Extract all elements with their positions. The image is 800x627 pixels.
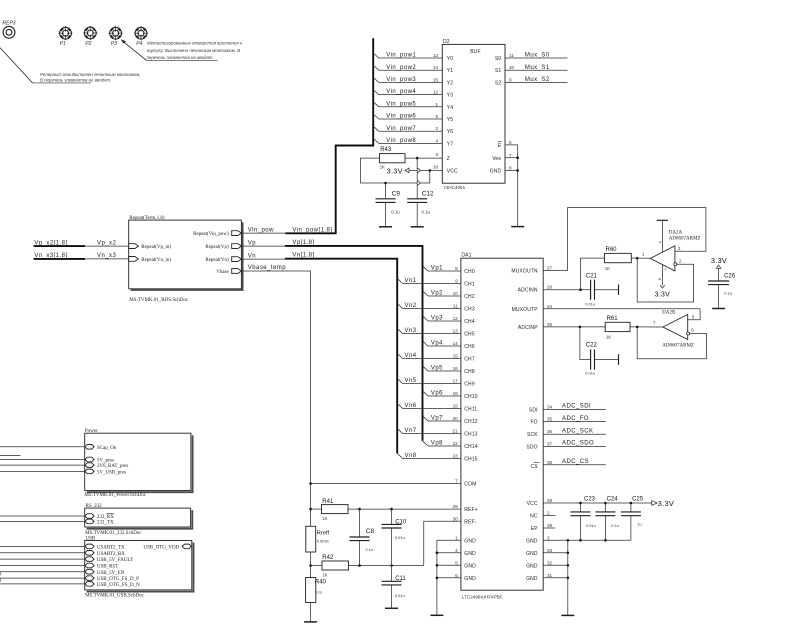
bus entry Vn3 (397, 328, 402, 333)
svg-text:Vp_x2: Vp_x2 (97, 240, 116, 246)
wire pin5 to MUXOUTP (688, 309, 700, 320)
leader line to fiducial (0, 46, 33, 83)
svg-text:CH6: CH6 (464, 344, 475, 350)
svg-text:3.3V: 3.3V (387, 167, 403, 176)
wire Vn8 (403, 458, 461, 460)
svg-text:Vp6: Vp6 (431, 391, 443, 397)
capacitor C23 (571, 503, 591, 540)
wire MUXOUTP (543, 308, 700, 310)
note: plated mounting holes text (147, 41, 243, 61)
wire left GND rail (437, 540, 461, 615)
sheet entry USB_OTG_VDD (182, 544, 191, 549)
bus Vn_x3[1.8] (34, 258, 85, 260)
wire Vin_pow8 (379, 142, 443, 144)
wire USB_RST (0, 565, 85, 567)
svg-text:FO: FO (530, 420, 537, 426)
svg-text:MUXOUTP: MUXOUTP (512, 307, 539, 313)
svg-text:Vp1: Vp1 (431, 266, 443, 272)
ground below C12 (411, 226, 424, 228)
svg-text:30: 30 (453, 516, 459, 521)
wire 5V_USB_pres (0, 470, 85, 472)
svg-text:12: 12 (433, 90, 439, 95)
svg-text:ADC_SDO: ADC_SDO (562, 441, 594, 447)
svg-text:0.01u: 0.01u (395, 535, 405, 540)
svg-text:10: 10 (453, 291, 459, 296)
svg-text:34: 34 (547, 404, 553, 409)
svg-text:7: 7 (653, 320, 656, 325)
svg-text:Vn_x3: Vn_x3 (97, 253, 116, 259)
svg-text:GND: GND (464, 551, 476, 557)
svg-text:GND: GND (526, 576, 538, 582)
svg-text:5.001K: 5.001K (317, 539, 330, 544)
wire 232_RX (0, 515, 85, 517)
svg-text:BUF: BUF (470, 49, 480, 55)
svg-text:Vn1: Vn1 (405, 278, 417, 284)
svg-text:E: E (498, 143, 502, 149)
svg-text:14: 14 (453, 341, 459, 346)
svg-text:Repeat(Vin_pow): Repeat(Vin_pow) (193, 232, 229, 237)
junction C24 top (604, 502, 607, 505)
svg-text:CH13: CH13 (464, 432, 477, 438)
wire Vn6 (403, 408, 461, 410)
wire Vn1 (403, 283, 461, 285)
svg-text:D2: D2 (443, 39, 450, 45)
note: fiducial mark text (33, 72, 141, 83)
sheet entry USB_OTG_FS_D_N (85, 582, 94, 587)
wire USB_OTG_FS_D_P (0, 577, 85, 579)
svg-text:ADC_SCK: ADC_SCK (562, 428, 594, 434)
svg-text:Repeat(Vp): Repeat(Vp) (205, 245, 229, 250)
svg-text:15: 15 (453, 354, 459, 359)
svg-text:DA1: DA1 (461, 253, 471, 259)
svg-text:11: 11 (509, 53, 514, 58)
svg-text:C26: C26 (724, 273, 736, 279)
svg-text:S1: S1 (495, 68, 501, 74)
sheet entry USB_5V_EN (85, 569, 94, 574)
svg-text:27: 27 (547, 266, 553, 271)
junction VCC (429, 169, 432, 172)
svg-text:COM: COM (464, 482, 476, 488)
svg-text:2: 2 (547, 511, 550, 516)
wire ADCINP (543, 326, 605, 328)
bus entry Vin_pow4 (373, 90, 379, 95)
svg-text:3: 3 (547, 535, 550, 540)
ADC DA1 LTC2498 body (461, 258, 543, 590)
svg-text:S0: S0 (495, 56, 501, 62)
stub EP (543, 527, 555, 529)
power port 3.3V right (652, 499, 674, 508)
wire Z filter drop (416, 158, 418, 199)
wire R60 to DA2A input (631, 257, 650, 259)
svg-text:26: 26 (547, 285, 553, 290)
svg-text:Vn[1.8]: Vn[1.8] (292, 253, 314, 259)
junction C10 top (390, 508, 393, 511)
bus entry Vp7 (423, 416, 428, 421)
svg-text:Vp3: Vp3 (431, 316, 443, 322)
junction Vbase_temp/COM (309, 482, 312, 485)
wire hop over Z net at VCC wire (417, 168, 420, 173)
wire Vin_pow1 (379, 57, 443, 59)
sheet entry USB_OTG_FS_D_P (85, 576, 94, 581)
svg-text:Y6: Y6 (447, 129, 453, 135)
svg-text:Vin_pow2: Vin_pow2 (386, 65, 416, 71)
svg-text:R43: R43 (380, 147, 392, 153)
svg-text:B: B (0, 572, 2, 578)
svg-text:AD8607ARMZ: AD8607ARMZ (669, 236, 701, 241)
junction GND32 (567, 564, 570, 567)
wire USB_5V_FAULT (0, 558, 85, 560)
svg-text:CH7: CH7 (464, 357, 475, 363)
svg-text:31: 31 (547, 573, 553, 578)
svg-text:GND: GND (490, 169, 502, 175)
wire GND3 row (543, 539, 631, 541)
svg-text:2: 2 (435, 126, 438, 131)
wire GND pin 4 (437, 552, 461, 554)
svg-text:24: 24 (547, 304, 553, 309)
svg-text:GND: GND (526, 538, 538, 544)
svg-text:ADC_SDI: ADC_SDI (562, 404, 591, 410)
svg-text:В перечень элементов не вводя: В перечень элементов не вводят. (40, 78, 111, 83)
bus entry Vn1 (397, 278, 402, 283)
wire GND33 (543, 552, 568, 554)
svg-text:Vn3: Vn3 (405, 328, 417, 334)
svg-text:Z: Z (447, 156, 450, 162)
junction GND6 (436, 577, 439, 580)
svg-text:C23: C23 (584, 497, 596, 503)
svg-text:1K: 1K (606, 335, 611, 340)
wire E to ground rail (505, 145, 518, 227)
wire Vin_pow2 (379, 69, 443, 71)
svg-text:C11: C11 (395, 576, 406, 582)
sheet entry USB_5V_FAULT (85, 557, 94, 562)
sheet entry USB_RST (85, 563, 94, 568)
junction Vee (516, 156, 519, 159)
svg-text:CH0: CH0 (464, 269, 475, 275)
svg-text:USB_RST: USB_RST (97, 565, 118, 570)
wire R42 right row (349, 565, 424, 567)
power port 3.3V at C26 (711, 256, 727, 268)
svg-text:0.1u: 0.1u (724, 291, 732, 296)
svg-text:18: 18 (453, 391, 459, 396)
svg-text:CH11: CH11 (464, 407, 477, 413)
wire R42 left (311, 565, 322, 567)
svg-text:Vp7: Vp7 (431, 416, 443, 422)
svg-text:22: 22 (453, 441, 459, 446)
wire R43 right to Z pin (405, 157, 442, 159)
wire 3V6_BAT_pres (0, 464, 85, 466)
svg-text:Y3: Y3 (447, 93, 453, 99)
capacitor C24 (595, 503, 615, 540)
svg-text:CH12: CH12 (464, 419, 477, 425)
capacitor C11 (382, 566, 402, 609)
mounting hole P1 (58, 26, 72, 40)
svg-text:ADCINN: ADCINN (518, 288, 538, 294)
svg-text:CH15: CH15 (464, 457, 477, 463)
svg-text:CH8: CH8 (464, 369, 475, 375)
svg-text:Repeat(Term,1,8): Repeat(Term,1,8) (129, 216, 165, 221)
svg-text:37: 37 (547, 442, 553, 447)
wire 3.3V to VCC pin (409, 169, 417, 171)
wire ADC_CS (543, 464, 606, 466)
wire Mux_S1 (505, 69, 568, 71)
svg-text:0.01u: 0.01u (585, 302, 595, 307)
fiducial REP3 (3, 26, 15, 38)
svg-text:Vn7: Vn7 (405, 428, 417, 434)
wire Vn2 (403, 308, 461, 310)
svg-text:Vn5: Vn5 (405, 378, 417, 384)
svg-text:Y0: Y0 (447, 56, 453, 62)
resistor R43 (380, 154, 406, 163)
svg-text:CH1: CH1 (464, 282, 475, 288)
wire Vin_pow5 (379, 106, 443, 108)
svg-text:Vp4: Vp4 (431, 341, 443, 347)
junction R42 left (309, 564, 312, 567)
svg-text:SCK: SCK (527, 432, 538, 438)
capacitor C10 (382, 509, 402, 565)
op-amp DA2B (663, 315, 688, 340)
wire rail to VCC junction (420, 170, 429, 183)
svg-text:19: 19 (453, 404, 459, 409)
svg-text:1K: 1K (605, 266, 610, 271)
wire Vn5 (403, 383, 461, 385)
wire Vn (241, 258, 285, 260)
svg-text:Repeat(Vp_in): Repeat(Vp_in) (141, 245, 171, 250)
svg-text:Rreff: Rreff (317, 531, 330, 537)
svg-text:SDO: SDO (526, 445, 537, 451)
bus entry Vp3 (423, 316, 428, 321)
wire SCap_On (0, 446, 85, 448)
svg-text:S2: S2 (495, 80, 501, 86)
wire Vee stub (505, 157, 518, 159)
svg-text:1K: 1K (322, 516, 327, 521)
wire ADC_SDI (543, 408, 606, 410)
svg-text:5: 5 (692, 314, 695, 319)
svg-text:6: 6 (509, 140, 512, 145)
bus entry Vn4 (397, 353, 402, 358)
wire Vn_x3 (85, 258, 129, 260)
svg-text:корпусу. Выполнено печатным мо: корпусу. Выполнено печатным монтажом. В (147, 48, 240, 53)
svg-text:P4: P4 (136, 41, 142, 47)
power pin 4 rail (657, 220, 668, 252)
capacitor C9 (376, 183, 396, 227)
svg-text:C22: C22 (586, 342, 598, 348)
stub NC (543, 515, 555, 517)
svg-text:P3: P3 (111, 41, 117, 47)
bus entry Vn8 (397, 453, 402, 458)
svg-text:74HC4051: 74HC4051 (443, 185, 465, 190)
ground below right GND rail (561, 614, 574, 616)
svg-text:Y1: Y1 (447, 68, 453, 74)
svg-text:SDI: SDI (529, 407, 538, 413)
svg-text:17: 17 (453, 379, 459, 384)
svg-text:232_RX: 232_RX (97, 515, 114, 520)
svg-text:Mux_S2: Mux_S2 (525, 77, 550, 83)
wire Vp7 (428, 420, 461, 422)
wire Vin_pow4 (379, 94, 443, 96)
bus Vp_x2[1.8] (34, 245, 85, 247)
svg-text:Vin_pow1: Vin_pow1 (386, 53, 416, 59)
svg-text:CH3: CH3 (464, 307, 475, 313)
svg-text:P1: P1 (60, 41, 66, 47)
svg-text:Vp[1.8]: Vp[1.8] (292, 240, 314, 246)
wire stub (0, 455, 21, 457)
svg-text:1: 1 (455, 535, 458, 540)
svg-text:16: 16 (453, 366, 459, 371)
svg-text:CH4: CH4 (464, 319, 475, 325)
svg-text:Vin_pow: Vin_pow (248, 227, 274, 233)
svg-text:ADC_CS: ADC_CS (562, 459, 589, 465)
svg-text:Vn6: Vn6 (405, 403, 417, 409)
svg-text:3: 3 (435, 152, 438, 157)
capacitor C22 (580, 327, 619, 370)
svg-text:28: 28 (547, 498, 553, 503)
bus entry Vp1 (423, 266, 428, 271)
svg-text:Y5: Y5 (447, 117, 453, 123)
svg-text:CH9: CH9 (464, 382, 475, 388)
svg-text:MS.TVMK.01_RDS.SchDoc: MS.TVMK.01_RDS.SchDoc (129, 298, 189, 303)
svg-text:10: 10 (509, 65, 515, 70)
junction C10/C11 (390, 564, 393, 567)
svg-text:Repeat(Vn): Repeat(Vn) (205, 258, 229, 263)
sheet entry 5V_USB_pres (85, 469, 94, 474)
svg-text:5V_USB_pres: 5V_USB_pres (97, 471, 126, 476)
svg-text:0.1u: 0.1u (365, 547, 373, 552)
svg-text:3.3V: 3.3V (658, 499, 674, 508)
junction C8 bottom (358, 564, 361, 567)
svg-text:Vbase_temp: Vbase_temp (248, 265, 286, 271)
wire Vin_pow6 (379, 118, 443, 120)
wire Vp6 (428, 395, 461, 397)
ground below C26 (712, 308, 725, 310)
bus entry Vin_pow2 (373, 65, 379, 70)
wire COM (311, 483, 461, 485)
svg-text:Y2: Y2 (447, 80, 453, 86)
svg-text:P2: P2 (85, 41, 91, 47)
svg-text:REF+: REF+ (464, 507, 478, 513)
capacitor C21 (591, 280, 619, 300)
sheet symbol RS_232 body (85, 508, 191, 527)
svg-text:Mux_S1: Mux_S1 (525, 65, 550, 71)
wire Vn7 (403, 433, 461, 435)
junction C23 top (579, 502, 582, 505)
resistor R41 (322, 505, 349, 514)
svg-text:R60: R60 (606, 247, 618, 253)
pin name E (active low) (498, 142, 502, 149)
wire MUXOUTN (543, 270, 567, 272)
sheet entry USART2_TX (85, 544, 94, 549)
sheet symbol RDS shadow (131, 222, 243, 290)
svg-text:AD8607ARMZ: AD8607ARMZ (662, 344, 694, 349)
bus entry Vp4 (423, 341, 428, 346)
svg-text:Power: Power (85, 429, 98, 434)
svg-text:+: + (664, 267, 667, 272)
svg-text:0.1u: 0.1u (422, 209, 431, 214)
svg-text:20: 20 (453, 416, 459, 421)
junction Z (416, 157, 419, 160)
pin name CS (active low) (530, 463, 539, 470)
svg-text:R41: R41 (322, 499, 334, 505)
bus Vn[1.8] (285, 259, 397, 454)
bus entry Vp2 (423, 291, 428, 296)
bus Vin_pow[1.8] trunk (285, 38, 373, 233)
wire ADC_FO (543, 421, 606, 423)
wire GND stub (505, 169, 518, 171)
svg-text:Vp2: Vp2 (431, 291, 443, 297)
wire USB_5V_EN (0, 571, 85, 573)
resistor R60 (605, 253, 632, 262)
svg-text:GND: GND (464, 538, 476, 544)
svg-text:GND: GND (526, 551, 538, 557)
svg-text:MS.TVMK.01_USB.SchDoc: MS.TVMK.01_USB.SchDoc (85, 594, 145, 599)
junction GND rail top (567, 539, 570, 542)
capacitor C26 (708, 268, 729, 308)
junction C24 bottom (604, 539, 607, 542)
mounting hole P2 (83, 26, 97, 40)
svg-text:C9: C9 (392, 190, 401, 197)
svg-text:1K: 1K (322, 572, 327, 577)
svg-text:0.1u: 0.1u (611, 523, 619, 528)
svg-text:MS.TVMK.01_232.SchDoc: MS.TVMK.01_232.SchDoc (85, 531, 142, 536)
wire R61 to DA2B input (630, 326, 663, 328)
wire DA2B output feedback loop (637, 327, 706, 359)
sheet entry Vbase (232, 269, 242, 274)
bus entry Vp6 (423, 391, 428, 396)
svg-text:7: 7 (509, 153, 512, 158)
svg-text:REF-: REF- (464, 519, 476, 525)
sheet entry Repeat(Vn) (232, 257, 242, 262)
capacitor C25 (621, 503, 641, 540)
output bubble DA2B (687, 332, 690, 335)
sheet entry 232_TX (85, 519, 94, 524)
svg-text:Vp: Vp (248, 240, 256, 246)
wire Vin_pow7 (379, 130, 443, 132)
wire Vn4 (403, 358, 461, 360)
svg-text:GND: GND (464, 576, 476, 582)
wire R41 left (311, 508, 322, 510)
junction ADCINN tap (579, 288, 582, 291)
wire GND31 (543, 577, 568, 579)
wire Vp_x2 (85, 245, 129, 247)
svg-text:Реперный знак.Выполнен печатны: Реперный знак.Выполнен печатным монтажом… (40, 72, 140, 77)
svg-text:2: 2 (679, 258, 682, 263)
svg-text:Vbase: Vbase (216, 270, 229, 275)
bus Vp[1.8] (285, 246, 423, 441)
svg-text:Vn: Vn (248, 253, 256, 259)
svg-text:перечень элементов не вводят.: перечень элементов не вводят. (147, 55, 214, 60)
wire REF- riser (424, 521, 461, 565)
svg-text:Mux_S0: Mux_S0 (525, 53, 550, 59)
junction GND31 (567, 577, 570, 580)
capacitor C12 (407, 199, 427, 227)
svg-text:RS_232: RS_232 (86, 504, 103, 509)
bus entry Vn6 (397, 403, 402, 408)
wire DA2A output feedback loop (637, 258, 693, 302)
svg-text:C24: C24 (607, 497, 619, 503)
sheet entry Repeat(Vp_in) (129, 244, 139, 249)
junction C9 tap (384, 182, 387, 185)
wire VCC 3.3V rail (543, 502, 652, 504)
junction R41 left (309, 508, 312, 511)
junction GND33 (567, 552, 570, 555)
svg-text:4: 4 (657, 241, 662, 244)
svg-text:VCC: VCC (527, 501, 538, 507)
resistor R40 (306, 566, 316, 622)
svg-text:CH2: CH2 (464, 294, 475, 300)
junction GND (516, 169, 519, 172)
svg-text:8: 8 (657, 277, 662, 280)
junction DA2A input (636, 257, 639, 260)
sheet entry Repeat(Vp) (232, 244, 242, 249)
